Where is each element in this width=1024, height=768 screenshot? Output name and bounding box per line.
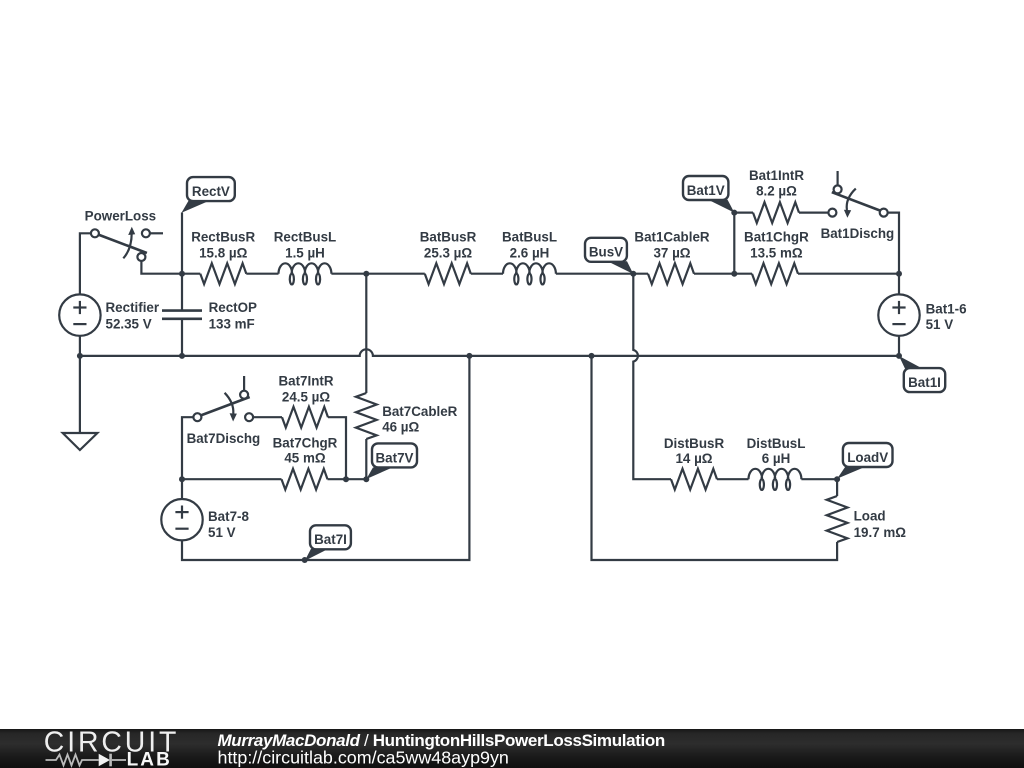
wire	[734, 212, 753, 214]
wire	[592, 356, 838, 560]
resistor RectBusR	[200, 263, 246, 284]
value label BatBusL 2.6 uH	[502, 230, 557, 261]
value label Bat1-6 51 V	[926, 302, 967, 333]
svg-text:Bat7I: Bat7I	[314, 532, 347, 547]
node Bat1V anchor	[731, 210, 737, 216]
svg-text:RectV: RectV	[192, 184, 230, 199]
svg-text:19.7 mΩ: 19.7 mΩ	[854, 525, 907, 540]
value label BatBusR 25.3 uOhm	[420, 230, 477, 261]
resistor Bat1IntR	[753, 202, 799, 223]
capacitor RectOP	[162, 274, 202, 356]
node E	[77, 353, 83, 359]
svg-text:Bat7IntR: Bat7IntR	[278, 374, 333, 389]
svg-text:Bat1ChgR: Bat1ChgR	[744, 230, 809, 245]
switch Bat1Dischg	[828, 171, 887, 218]
node J	[179, 476, 185, 482]
svg-text:RectBusR: RectBusR	[191, 230, 255, 245]
wire	[836, 479, 838, 496]
logo symbol resistor-diode	[46, 754, 127, 767]
resistor Bat1ChgR	[752, 263, 798, 284]
value label Bat7ChgR 45 mOhm	[273, 435, 338, 465]
resistor DistBusR	[671, 469, 717, 490]
voltage source Bat1-6	[878, 274, 919, 356]
svg-text:Bat7-8: Bat7-8	[208, 509, 249, 524]
svg-text:24.5 µΩ: 24.5 µΩ	[282, 389, 330, 404]
svg-text:2.6 µH: 2.6 µH	[510, 245, 550, 260]
node B	[363, 271, 369, 277]
value label Bat1IntR 8.2 uOhm	[749, 168, 804, 199]
svg-text:25.3 µΩ: 25.3 µΩ	[424, 245, 472, 260]
inductor DistBusL	[749, 469, 802, 490]
wire BusV vertical with hop	[633, 274, 671, 480]
node LoadV anchor	[834, 476, 840, 482]
svg-text:RectOP: RectOP	[209, 300, 257, 315]
wire Bat1V stub	[733, 213, 735, 274]
probe flag Bat1I	[899, 356, 945, 392]
svg-text:LAB: LAB	[127, 750, 172, 768]
svg-text:45 mΩ: 45 mΩ	[284, 451, 326, 466]
svg-text:Bat1I: Bat1I	[908, 375, 941, 390]
wire	[365, 439, 367, 479]
resistor Bat7CableR	[356, 393, 377, 439]
switch PowerLoss	[80, 227, 163, 295]
probe flag RectV	[182, 177, 235, 213]
wire	[253, 416, 282, 418]
wire	[181, 213, 183, 274]
svg-text:1.5 µH: 1.5 µH	[285, 245, 325, 260]
svg-text:DistBusL: DistBusL	[747, 436, 806, 451]
voltage source Rectifier	[59, 294, 100, 335]
svg-text:Rectifier: Rectifier	[106, 300, 160, 315]
svg-text:51 V: 51 V	[926, 317, 954, 332]
node G	[466, 353, 472, 359]
wire return bus with hop	[80, 349, 899, 356]
probe flag Bat1V	[683, 176, 734, 213]
resistor Bat7ChgR	[282, 469, 328, 490]
resistor Load (vertical)	[827, 496, 848, 542]
value label RectOP 133 mF	[209, 300, 257, 331]
wire	[182, 478, 282, 480]
svg-text:BatBusR: BatBusR	[420, 230, 477, 245]
svg-text:13.5 mΩ: 13.5 mΩ	[750, 245, 803, 260]
ground	[63, 433, 98, 450]
inductor BatBusL	[503, 263, 556, 284]
wire	[717, 478, 749, 480]
svg-text:Bat1IntR: Bat1IntR	[749, 168, 804, 183]
svg-text:6 µH: 6 µH	[762, 451, 791, 466]
value label DistBusL 6 uH	[747, 436, 806, 466]
wire	[328, 478, 367, 480]
value label Bat1CableR 37 uOhm	[634, 230, 709, 261]
svg-text:Bat1CableR: Bat1CableR	[634, 230, 709, 245]
value label Rectifier 52.35 V	[106, 300, 160, 331]
value label Bat7-8 51 V	[208, 509, 249, 540]
resistor BatBusR	[425, 263, 471, 284]
wire	[182, 417, 193, 499]
probe flag BusV	[585, 238, 633, 274]
wire	[471, 273, 503, 275]
node D	[896, 271, 902, 277]
value label Load 19.7 mOhm	[854, 508, 907, 540]
svg-text:37 µΩ: 37 µΩ	[653, 245, 690, 260]
value label RectBusR 15.8 uOhm	[191, 230, 255, 261]
wire Bat7 feed vertical	[365, 274, 367, 393]
svg-text:Bat1-6: Bat1-6	[926, 302, 967, 317]
node BusV anchor	[630, 271, 636, 277]
probe flag LoadV	[837, 443, 892, 479]
svg-text:133 mF: 133 mF	[209, 317, 255, 332]
value label RectBusL 1.5 uH	[274, 230, 337, 261]
svg-text:Bat7CableR: Bat7CableR	[382, 404, 457, 419]
svg-text:52.35 V: 52.35 V	[106, 317, 152, 332]
wire	[182, 356, 469, 560]
wire	[798, 273, 899, 275]
node C	[731, 271, 737, 277]
wire	[556, 273, 648, 275]
wire	[801, 478, 837, 480]
svg-text:RectBusL: RectBusL	[274, 230, 337, 245]
wire	[888, 213, 899, 274]
node Bat7V anchor	[363, 476, 369, 482]
wire	[799, 212, 828, 214]
wire	[246, 273, 278, 275]
switch Bat7Dischg	[193, 376, 253, 422]
svg-text:BusV: BusV	[589, 245, 623, 260]
svg-text:46 µΩ: 46 µΩ	[382, 420, 419, 435]
svg-text:Bat1V: Bat1V	[687, 183, 725, 198]
svg-text:14 µΩ: 14 µΩ	[675, 451, 712, 466]
resistor Bat7IntR	[282, 407, 328, 428]
probe flag Bat7I	[305, 525, 351, 561]
svg-text:BatBusL: BatBusL	[502, 230, 557, 245]
svg-text:Bat7V: Bat7V	[376, 450, 414, 465]
value label Bat1ChgR 13.5 mOhm	[744, 230, 809, 261]
node I	[343, 476, 349, 482]
svg-text:http://circuitlab.com/ca5ww48a: http://circuitlab.com/ca5ww48ayp9yn	[218, 747, 509, 767]
wire	[328, 417, 346, 479]
svg-text:15.8 µΩ: 15.8 µΩ	[199, 245, 247, 260]
node Bat7I anchor	[302, 557, 308, 563]
svg-text:Bat1Dischg: Bat1Dischg	[821, 226, 895, 241]
node H	[589, 353, 595, 359]
resistor Bat1CableR	[648, 263, 694, 284]
svg-text:Load: Load	[854, 508, 886, 523]
inductor RectBusL	[279, 263, 332, 284]
node A	[179, 271, 185, 277]
node F	[179, 353, 185, 359]
svg-text:DistBusR: DistBusR	[664, 436, 725, 451]
svg-text:PowerLoss: PowerLoss	[85, 209, 156, 224]
svg-text:Bat7ChgR: Bat7ChgR	[273, 435, 338, 450]
wire	[694, 273, 752, 275]
svg-text:51 V: 51 V	[208, 525, 236, 540]
footer bar	[0, 729, 1024, 768]
value label Bat7CableR 46 uOhm	[382, 404, 457, 435]
wire	[79, 336, 81, 433]
probe flag Bat7V	[366, 443, 417, 479]
wire	[331, 273, 424, 275]
node Bat1I anchor	[896, 353, 902, 359]
voltage source Bat7-8	[161, 499, 202, 540]
value label Bat7IntR 24.5 uOhm	[278, 374, 333, 405]
svg-text:LoadV: LoadV	[847, 450, 888, 465]
value label DistBusR 14 uOhm	[664, 436, 725, 466]
svg-text:Bat7Dischg: Bat7Dischg	[187, 431, 261, 446]
wire	[141, 261, 200, 274]
svg-text:8.2 µΩ: 8.2 µΩ	[756, 184, 797, 199]
